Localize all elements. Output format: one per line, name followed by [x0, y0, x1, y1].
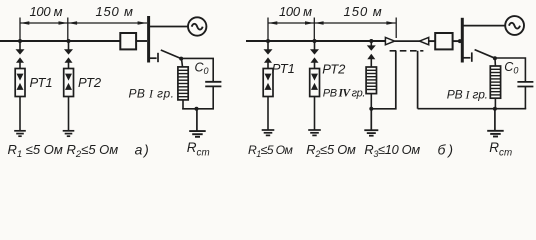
svg-text:РТ1: РТ1: [272, 61, 295, 76]
node: line tap junction 2 (b): [313, 39, 317, 43]
svg-text:б): б): [438, 142, 457, 158]
svg-text:РТ1: РТ1: [30, 75, 53, 90]
svg-text:150 м: 150 м: [344, 4, 383, 19]
svg-text:R1≤5 Ом: R1≤5 Ом: [248, 143, 294, 159]
ground: earth of RT2 (b): [308, 130, 321, 135]
ground: earth of PV IV, R3 (b): [364, 130, 378, 136]
ground: station earth Rst (a): [189, 131, 206, 137]
node: line tap junction 1 (a): [18, 39, 22, 43]
wire: cable run (b): [395, 40, 420, 42]
box: cable entrance box on line (b): [435, 33, 452, 49]
svg-text:C0: C0: [195, 61, 209, 77]
node: line-bus junction (b): [458, 39, 462, 43]
node: station ground tap (a): [195, 107, 199, 111]
disconnector switch (a): stub, contact, open blade: [148, 50, 181, 62]
svg-text:R2≤5 Ом: R2≤5 Ом: [306, 142, 356, 159]
wire: capacitor C0 bottom down (a): [212, 86, 214, 108]
wire: capacitor C0 bottom down (b): [524, 87, 526, 109]
wire: node to capacitor C0 top (a): [181, 58, 213, 81]
wire: ground tap down (a): [196, 109, 198, 131]
generator G (a): circle with sine: [188, 17, 206, 35]
wire: box to bus (b): [453, 40, 462, 42]
cable sheath dashed line (b): [390, 50, 424, 52]
wire: common bottom wire (a): [182, 108, 214, 110]
wire: bus to generator (a): [148, 26, 188, 28]
svg-text:Rст: Rст: [489, 140, 512, 158]
svg-text:R1 ≤5 Ом: R1 ≤5 Ом: [8, 142, 63, 160]
wire: sheath right bond down (b): [417, 51, 419, 109]
svg-text:100 м: 100 м: [30, 4, 63, 19]
wire: cable to box (b): [429, 40, 436, 42]
cable termination arrow left (b): [385, 37, 394, 44]
svg-text:150 м: 150 м: [96, 4, 134, 19]
svg-text:РВ I гр.: РВ I гр.: [129, 86, 175, 100]
svg-text:R3≤10 Ом: R3≤10 Ом: [364, 142, 420, 159]
svg-text:РВ IV гр.: РВ IV гр.: [323, 87, 365, 99]
wire: arrester PV I bottom to ground bus (b): [494, 98, 496, 109]
bus: station busbar (b): [461, 18, 464, 63]
svg-text:РТ2: РТ2: [78, 75, 102, 90]
node: switch-arrester-capacitor junction (b): [493, 56, 497, 60]
wire: node down to arrester PV I (b): [494, 58, 496, 66]
cable termination arrow right (b): [420, 37, 429, 44]
wire: common bottom wire with sheath bond (b): [418, 108, 527, 110]
node: line tap junction 3 (b): [369, 39, 373, 43]
node: switch-arrester-capacitor junction (a): [179, 57, 183, 61]
capacitor C0 (a): [205, 82, 221, 87]
node: PV IV ground junction (b): [369, 107, 373, 111]
wire: overhead line (b): [246, 40, 386, 42]
wire: node down to arrester PV I (a): [182, 59, 183, 67]
wire: node to capacitor C0 top (b): [495, 58, 526, 82]
ground: earth of RT2 (a): [63, 131, 75, 136]
wire: line from box to bus (a): [136, 40, 147, 42]
valve arrester PV IV gr. (b): gap arrows + hatched body: [366, 41, 376, 109]
wire: PV IV ground tap down (b): [370, 109, 372, 130]
svg-text:РВ I гр.: РВ I гр.: [447, 87, 488, 101]
svg-text:100 м: 100 м: [279, 4, 312, 19]
wire: ground tap down (b): [494, 109, 496, 131]
generator G (b): circle with sine: [505, 16, 524, 35]
node: line tap junction 2 (a): [67, 39, 71, 43]
svg-text:а): а): [135, 142, 151, 158]
node: line tap junction 1 (b): [266, 39, 270, 43]
valve arrester PV I gr. (b): hatched body: [490, 66, 500, 98]
dimension line 100m/150m (a): [20, 18, 147, 42]
svg-text:Rст: Rст: [187, 140, 210, 158]
tube arrester RT1 (b): gap arrows, body, wire: [263, 41, 273, 130]
valve arrester PV I gr. (a): hatched body: [178, 67, 188, 100]
tube arrester RT1 (a): gap arrows, body, wire: [15, 41, 25, 131]
bus: station busbar (a): [147, 16, 150, 63]
disconnector switch (b): stub, contact, open blade: [462, 50, 495, 62]
wire: overhead line (a): [0, 40, 121, 42]
wire: arrester PV I bottom to ground bus (a): [182, 100, 184, 110]
ground: earth of RT1 (b): [262, 130, 275, 135]
ground: station earth Rst (b): [487, 131, 504, 137]
svg-text:РТ2: РТ2: [322, 61, 346, 76]
dimension line 100m/150m (b): [268, 18, 396, 42]
node: station ground tap (b): [493, 107, 497, 111]
svg-text:C0: C0: [504, 60, 518, 76]
tube arrester RT2 (a): gap arrows, body, wire: [64, 41, 74, 131]
capacitor C0 (b): [517, 82, 533, 87]
wire: bus to generator (b): [462, 25, 505, 27]
box: cable entrance box on line (a): [120, 33, 136, 49]
tube arrester RT2 (b): gap arrows, body, wire: [310, 41, 320, 130]
svg-text:R2≤5 Ом: R2≤5 Ом: [67, 142, 119, 160]
ground: earth of RT1 (a): [14, 131, 26, 136]
wire: sheath left bond down (b): [371, 51, 396, 109]
